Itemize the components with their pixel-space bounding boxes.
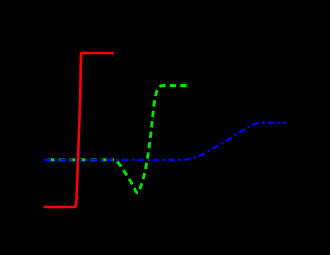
green dashed curve: undershoot dip and high plateau [114, 86, 187, 193]
green dashed curve: baseline portion [44, 158, 114, 161]
red solid step curve [44, 53, 114, 207]
blue dash-dot curve (baseline then sigmoid rise to plateau) [44, 123, 286, 160]
